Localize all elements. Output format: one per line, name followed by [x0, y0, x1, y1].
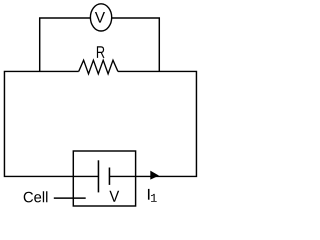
- resistor R zigzag: [79, 60, 118, 74]
- wire: top-left horizontal + left branch vertical down to resistor row: [40, 18, 91, 71]
- current arrow I1: [150, 171, 159, 180]
- cell box outline: [73, 151, 135, 206]
- voltmeter label V: [95, 12, 105, 23]
- cell label V: [109, 191, 119, 202]
- cell: short plate: [108, 168, 110, 185]
- cell: long plate: [97, 160, 99, 192]
- label Cell: [24, 191, 48, 202]
- voltmeter U1 circle: [90, 4, 111, 31]
- wire: top-right horizontal + right branch vertical down to resistor row: [112, 18, 160, 71]
- label I: [148, 189, 150, 200]
- wire: resistor row right segment + outer right vertical + bottom-right wire to cell: [109, 71, 196, 176]
- leader line from Cell label to box: [54, 197, 86, 199]
- resistor label R: [97, 46, 105, 58]
- wire: resistor row left segment + outer left vertical + bottom-left wire to cell: [4, 71, 98, 176]
- label subscript 1: [151, 194, 157, 202]
